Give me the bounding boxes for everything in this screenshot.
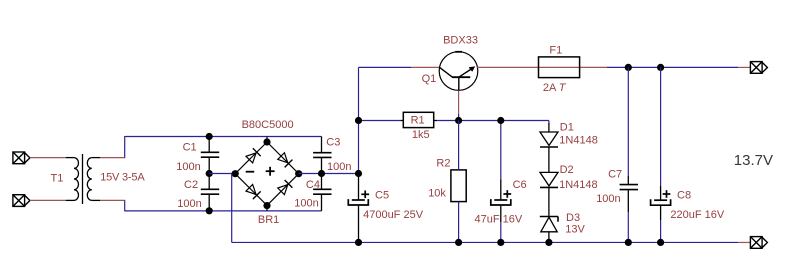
svg-text:C1: C1 — [183, 142, 197, 154]
node C1/C2 mid — [206, 170, 213, 177]
svg-text:D1: D1 — [560, 121, 574, 133]
wire J1 to T1 primary — [30, 157, 66, 159]
svg-text:C6: C6 — [513, 179, 527, 191]
diode D1 — [540, 123, 558, 172]
C6 plus mark — [503, 190, 511, 198]
svg-text:13.7V: 13.7V — [734, 152, 773, 169]
bridge rectifier BR1 — [235, 137, 299, 211]
wire mid left (C1/C2 mid to bridge) — [209, 173, 235, 175]
bridge diode bottom-right — [277, 180, 292, 195]
svg-text:100n: 100n — [294, 198, 318, 210]
wire R2 bottom — [458, 202, 460, 243]
node Q1/R2 junction — [455, 117, 462, 124]
svg-text:BDX33: BDX33 — [443, 34, 478, 46]
wire top rail y=136 — [125, 136, 322, 138]
svg-text:R1: R1 — [411, 114, 425, 126]
svg-text:220uF 16V: 220uF 16V — [670, 209, 724, 221]
svg-text:100n: 100n — [327, 161, 351, 173]
wire bottom cap rail y=210 — [125, 210, 322, 212]
wire Q1 collector to fuse (red) — [477, 66, 607, 68]
svg-text:Q1: Q1 — [422, 73, 437, 85]
zener diode D3 — [540, 217, 558, 243]
node C7 bottom — [625, 239, 632, 246]
output terminal J3 (top right) — [750, 62, 767, 74]
svg-text:R2: R2 — [436, 157, 450, 169]
svg-text:B80C5000: B80C5000 — [242, 119, 294, 131]
wire negative rail — [232, 241, 738, 243]
fuse F1 — [539, 57, 580, 78]
node C5 top junction — [355, 170, 362, 177]
node C8 top — [657, 64, 664, 71]
svg-text:4700uF 25V: 4700uF 25V — [363, 209, 424, 221]
bridge minus mark — [246, 171, 255, 173]
wire R2 top — [458, 121, 460, 170]
bridge plus mark — [266, 167, 275, 176]
svg-text:10k: 10k — [428, 188, 446, 200]
capacitor C3 — [313, 137, 331, 174]
node D3 bottom — [545, 239, 552, 246]
wire mid right (bridge to C3/C4 and C5 junction) — [299, 173, 359, 175]
wire Q1 emitter blue tip — [458, 114, 460, 121]
svg-text:1k5: 1k5 — [412, 129, 430, 141]
svg-text:C5: C5 — [375, 190, 389, 202]
node C5 bottom — [355, 239, 362, 246]
capacitor C4 — [313, 174, 331, 211]
bridge diode top-right — [277, 152, 292, 167]
svg-text:100n: 100n — [596, 193, 620, 205]
svg-text:T1: T1 — [51, 172, 64, 184]
svg-text:F1: F1 — [549, 45, 562, 57]
svg-text:C2: C2 — [184, 179, 198, 191]
wire J2 to T1 primary — [30, 199, 66, 201]
node C3/C4 mid — [318, 170, 325, 177]
capacitor C7 — [627, 67, 629, 176]
wire base (red part) — [411, 66, 440, 68]
node bridge right vertex — [295, 170, 302, 177]
wire D string corner — [548, 121, 550, 125]
wire T1 secondary top to box — [100, 157, 125, 159]
wire vertical x=358.3 (base column) — [359, 67, 412, 173]
output terminal J4 (bottom right) — [750, 237, 767, 249]
capacitor C5 (electrolytic) — [348, 174, 368, 243]
input terminal J1 (top left) — [13, 152, 30, 164]
C5 plus mark — [361, 191, 369, 199]
node bridge left vertex — [232, 170, 239, 177]
wire output rail (blue) to terminal — [607, 66, 738, 68]
svg-text:1N4148: 1N4148 — [559, 135, 598, 147]
node R2 bottom — [455, 239, 462, 246]
svg-text:100n: 100n — [176, 161, 200, 173]
svg-text:D2: D2 — [560, 164, 574, 176]
C8 plus mark — [663, 190, 671, 198]
node C2 bottom — [206, 207, 213, 214]
node C8 bottom — [657, 239, 664, 246]
capacitor C2 — [201, 174, 219, 211]
wire Q1 emitter down to R1 node — [458, 91, 460, 115]
bridge diode bottom-left — [245, 184, 260, 199]
svg-text:13V: 13V — [565, 223, 585, 235]
wire negative rail red tip — [738, 241, 750, 243]
resistor R1 — [400, 112, 437, 127]
svg-text:100n: 100n — [177, 198, 201, 210]
wire output rail red tip — [738, 66, 750, 68]
node bridge top vertex — [263, 138, 270, 145]
Q1 emitter arrowhead — [469, 66, 476, 71]
capacitor C6 (electrolytic) — [500, 121, 502, 180]
svg-text:D3: D3 — [566, 212, 580, 224]
svg-text:C7: C7 — [608, 169, 622, 181]
svg-text:2A T: 2A T — [543, 82, 567, 94]
diode D2 — [540, 172, 558, 216]
capacitor C1 — [201, 137, 219, 174]
resistor R2 — [451, 170, 466, 202]
node C7 top — [625, 64, 632, 71]
node C6 bottom — [497, 239, 504, 246]
svg-text:47uF 16V: 47uF 16V — [475, 213, 523, 225]
wire bridge left vertex down to negative rail — [231, 174, 233, 243]
node C6 top junction — [497, 117, 504, 124]
node R1 left junction — [355, 117, 362, 124]
wire left box verticals — [124, 136, 126, 211]
svg-text:1N4148: 1N4148 — [559, 179, 598, 191]
svg-text:C8: C8 — [677, 190, 691, 202]
wire T1 secondary bottom to box — [100, 199, 125, 201]
transformer T1 — [66, 154, 101, 204]
input terminal J2 (bottom left) — [13, 195, 30, 207]
capacitor C8 (electrolytic) — [660, 67, 662, 185]
svg-text:C3: C3 — [326, 137, 340, 149]
svg-text:BR1: BR1 — [258, 214, 279, 226]
node C1 top — [206, 133, 213, 140]
svg-text:15V 3-5A: 15V 3-5A — [100, 172, 145, 184]
wire R1 right to nodes — [437, 120, 549, 122]
svg-text:C4: C4 — [306, 179, 320, 191]
node bridge bottom vertex — [263, 202, 270, 209]
bridge diode top-left — [245, 148, 260, 163]
